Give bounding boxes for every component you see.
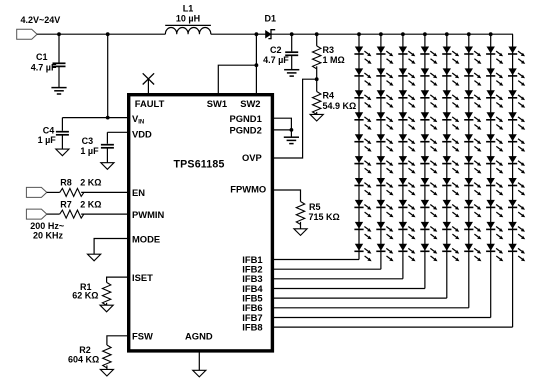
svg-text:FAULT: FAULT [135,98,165,109]
svg-text:C3: C3 [82,136,94,146]
diode D1 [266,31,271,38]
svg-text:4.7 µF: 4.7 µF [31,63,57,73]
node VIN-C4 [106,116,110,120]
capacitor C1 [53,62,66,64]
LED string D2 column 1 [354,47,371,64]
node PGND [290,128,294,132]
wire LED column 1 [358,34,360,259]
svg-text:1 MΩ: 1 MΩ [323,55,345,65]
wire OVP to node [272,79,315,158]
wire R4 bottom stub [316,112,318,115]
LED string D4 column 3 [398,47,415,64]
svg-text:604 KΩ: 604 KΩ [68,355,99,365]
node rail-VIN branch [106,32,110,36]
resistor R3 [313,46,321,69]
svg-text:2 KΩ: 2 KΩ [80,200,101,210]
svg-text:C2: C2 [270,45,282,55]
svg-text:SW2: SW2 [240,98,260,109]
svg-text:1 µF: 1 µF [38,135,57,145]
LED string D6 column 5 [442,47,459,64]
wire IFB2 to column 2 [272,268,381,270]
wire R2 bottom stub [106,365,108,369]
svg-text:AGND: AGND [185,331,213,342]
ground R4 [310,114,323,121]
svg-text:10 µH: 10 µH [176,14,200,24]
wire L1 to D1 [211,33,266,35]
wire LED column 2 [380,34,382,269]
svg-text:FPWMO: FPWMO [230,184,266,195]
resistor R2 [103,345,111,368]
wire IFB8 to column 8 [272,326,512,328]
svg-text:D1: D1 [265,13,277,23]
wire terminal to R7 [47,213,60,215]
wire IFB1 to column 1 [272,259,359,261]
resistor R5 [296,202,304,225]
node rail column 2 [379,32,383,36]
LED string D5 column 4 [420,47,437,64]
ground R1 [100,305,113,312]
wire terminal to R8 [47,191,60,193]
wire rail after D1 [271,33,513,35]
node SW jumper [255,63,259,67]
svg-text:R5: R5 [309,202,321,212]
wire VIN pin [62,117,128,119]
wire PGND2 pin [272,129,291,131]
wire IFB3 to column 3 [272,278,403,280]
capacitor C4 [56,131,69,133]
svg-text:TPS61185: TPS61185 [174,159,225,171]
wire FPWMO pin [272,190,300,202]
wire VDD pin [107,131,128,133]
ground C3 [101,163,114,170]
inductor L1 [165,28,210,35]
wire IFB4 to column 4 [272,288,425,290]
ground R2 [100,369,113,376]
ground PGND [284,136,299,138]
svg-text:VDD: VDD [132,128,152,139]
svg-text:2 KΩ: 2 KΩ [80,178,101,188]
wire C2 branch [291,34,293,69]
ground C1 [51,87,66,89]
wire IFB5 to column 5 [272,297,446,299]
ground C2 [284,69,299,71]
svg-text:C1: C1 [36,52,48,62]
wire R3 to node [316,66,318,79]
wire LED column 4 [424,34,426,288]
node rail column 3 [401,32,405,36]
wire VIN branch [107,34,109,117]
svg-text:62 KΩ: 62 KΩ [72,290,98,300]
svg-text:1 µF: 1 µF [80,146,99,156]
svg-text:C4: C4 [43,125,55,135]
wire AGND pin [198,353,200,371]
wire FSW pin [107,336,129,345]
resistor R1 [102,282,110,305]
LED string D3 column 2 [376,47,393,64]
capacitor C3 [101,144,114,146]
svg-text:IFB8: IFB8 [242,321,262,332]
svg-text:20 KHz: 20 KHz [33,231,64,241]
wire R1 bottom stub [106,303,108,305]
svg-text:L1: L1 [183,3,194,13]
wire LED column 3 [402,34,404,279]
node rail column 5 [445,32,449,36]
resistor R8 [60,188,84,196]
input terminal PWMIN [26,209,46,219]
no-connect X FAULT [143,73,154,84]
wire LED column 8 [512,34,514,327]
svg-text:54.9 KΩ: 54.9 KΩ [323,101,357,111]
svg-text:EN: EN [132,187,145,198]
wire R5 bottom stub [300,222,302,229]
svg-text:PWMIN: PWMIN [132,209,165,220]
wire FAULT pin [147,79,149,93]
svg-text:ISET: ISET [132,272,153,283]
input terminal EN [26,187,46,197]
svg-text:4.7 µF: 4.7 µF [263,55,289,65]
wire R3 top stub [316,34,318,46]
wire C1 branch [58,34,60,87]
wire input rail to L1 [37,33,165,35]
svg-text:PGND2: PGND2 [229,125,261,136]
wire PGND to ground [290,130,292,137]
LED string D8 column 7 [486,47,503,64]
node rail-C2 [290,32,294,36]
wire IFB6 to column 6 [272,307,468,309]
capacitor C3 branch wire [106,132,108,162]
wire MODE pin [94,239,129,255]
node rail column 1 [357,32,361,36]
svg-text:SW1: SW1 [207,98,227,109]
wire IFB7 to column 7 [272,317,490,319]
svg-text:FSW: FSW [132,331,153,342]
wire R4 top stub [316,79,318,91]
wire R7 to PWMIN pin [81,213,129,215]
ground MODE [88,254,101,261]
LED string D9 column 8 [508,47,525,64]
wire R8 to EN pin [81,191,129,193]
capacitor C2 [285,51,298,53]
svg-text:R4: R4 [323,91,335,101]
resistor R4 [313,92,321,115]
wire ISET pin [107,277,129,282]
svg-text:4.2V~24V: 4.2V~24V [21,15,61,25]
node R3-R4-OVP [315,77,319,81]
LED string D7 column 6 [464,47,481,64]
node rail column 7 [489,32,493,36]
svg-text:R7: R7 [60,200,72,210]
wire LED column 6 [468,34,470,308]
node rail column 4 [423,32,427,36]
wire PGND1 pin [272,118,291,130]
ground R5 [294,229,307,236]
svg-text:R3: R3 [323,45,335,55]
node SW rail junction [255,32,259,36]
wire LED column 7 [490,34,492,317]
ground C4 [56,149,69,156]
wire LED column 5 [446,34,448,298]
node rail-C1 [57,32,61,36]
input terminal J1 [17,29,37,39]
svg-text:PGND1: PGND1 [229,113,261,124]
resistor R7 [60,210,84,218]
node rail-R3 [315,32,319,36]
wire SW2 to rail [255,34,257,93]
svg-text:715 KΩ: 715 KΩ [309,212,340,222]
capacitor C4 branch wire [61,118,63,150]
svg-text:OVP: OVP [242,152,262,163]
node rail column 6 [467,32,471,36]
svg-text:MODE: MODE [132,233,160,244]
svg-text:R8: R8 [60,178,72,188]
wire SW1 jumper [218,65,256,93]
ground AGND [193,370,206,377]
IC U1 TPS61185 body [129,95,273,351]
